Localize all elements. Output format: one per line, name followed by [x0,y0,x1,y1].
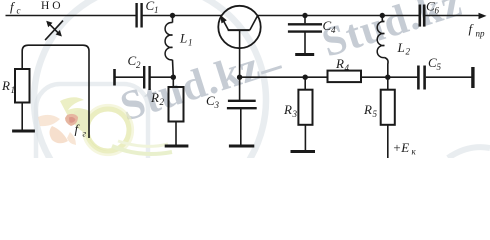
svg-text:2: 2 [160,97,165,107]
svg-text:R: R [1,78,10,93]
svg-text:1: 1 [188,38,193,48]
svg-text:R: R [335,56,344,71]
svg-text:4: 4 [345,63,350,73]
svg-text:4: 4 [331,25,336,35]
svg-text:5: 5 [437,62,442,72]
svg-text:2: 2 [406,47,411,57]
svg-text:с: с [17,6,21,16]
svg-text:R: R [283,102,292,117]
svg-text:+E: +E [393,140,410,155]
svg-text:R: R [150,90,159,105]
svg-text:пр: пр [476,29,486,39]
svg-text:L: L [397,40,405,55]
svg-text:5: 5 [373,109,378,119]
svg-text:6: 6 [435,6,440,16]
svg-text:2: 2 [136,60,141,70]
svg-text:L: L [179,31,187,46]
svg-text:R: R [363,102,372,117]
svg-text:3: 3 [214,100,220,110]
svg-text:НО: НО [41,0,64,12]
svg-text:1: 1 [154,5,159,15]
svg-text:г: г [83,129,87,139]
svg-text:1: 1 [11,85,16,95]
svg-text:3: 3 [292,109,298,119]
